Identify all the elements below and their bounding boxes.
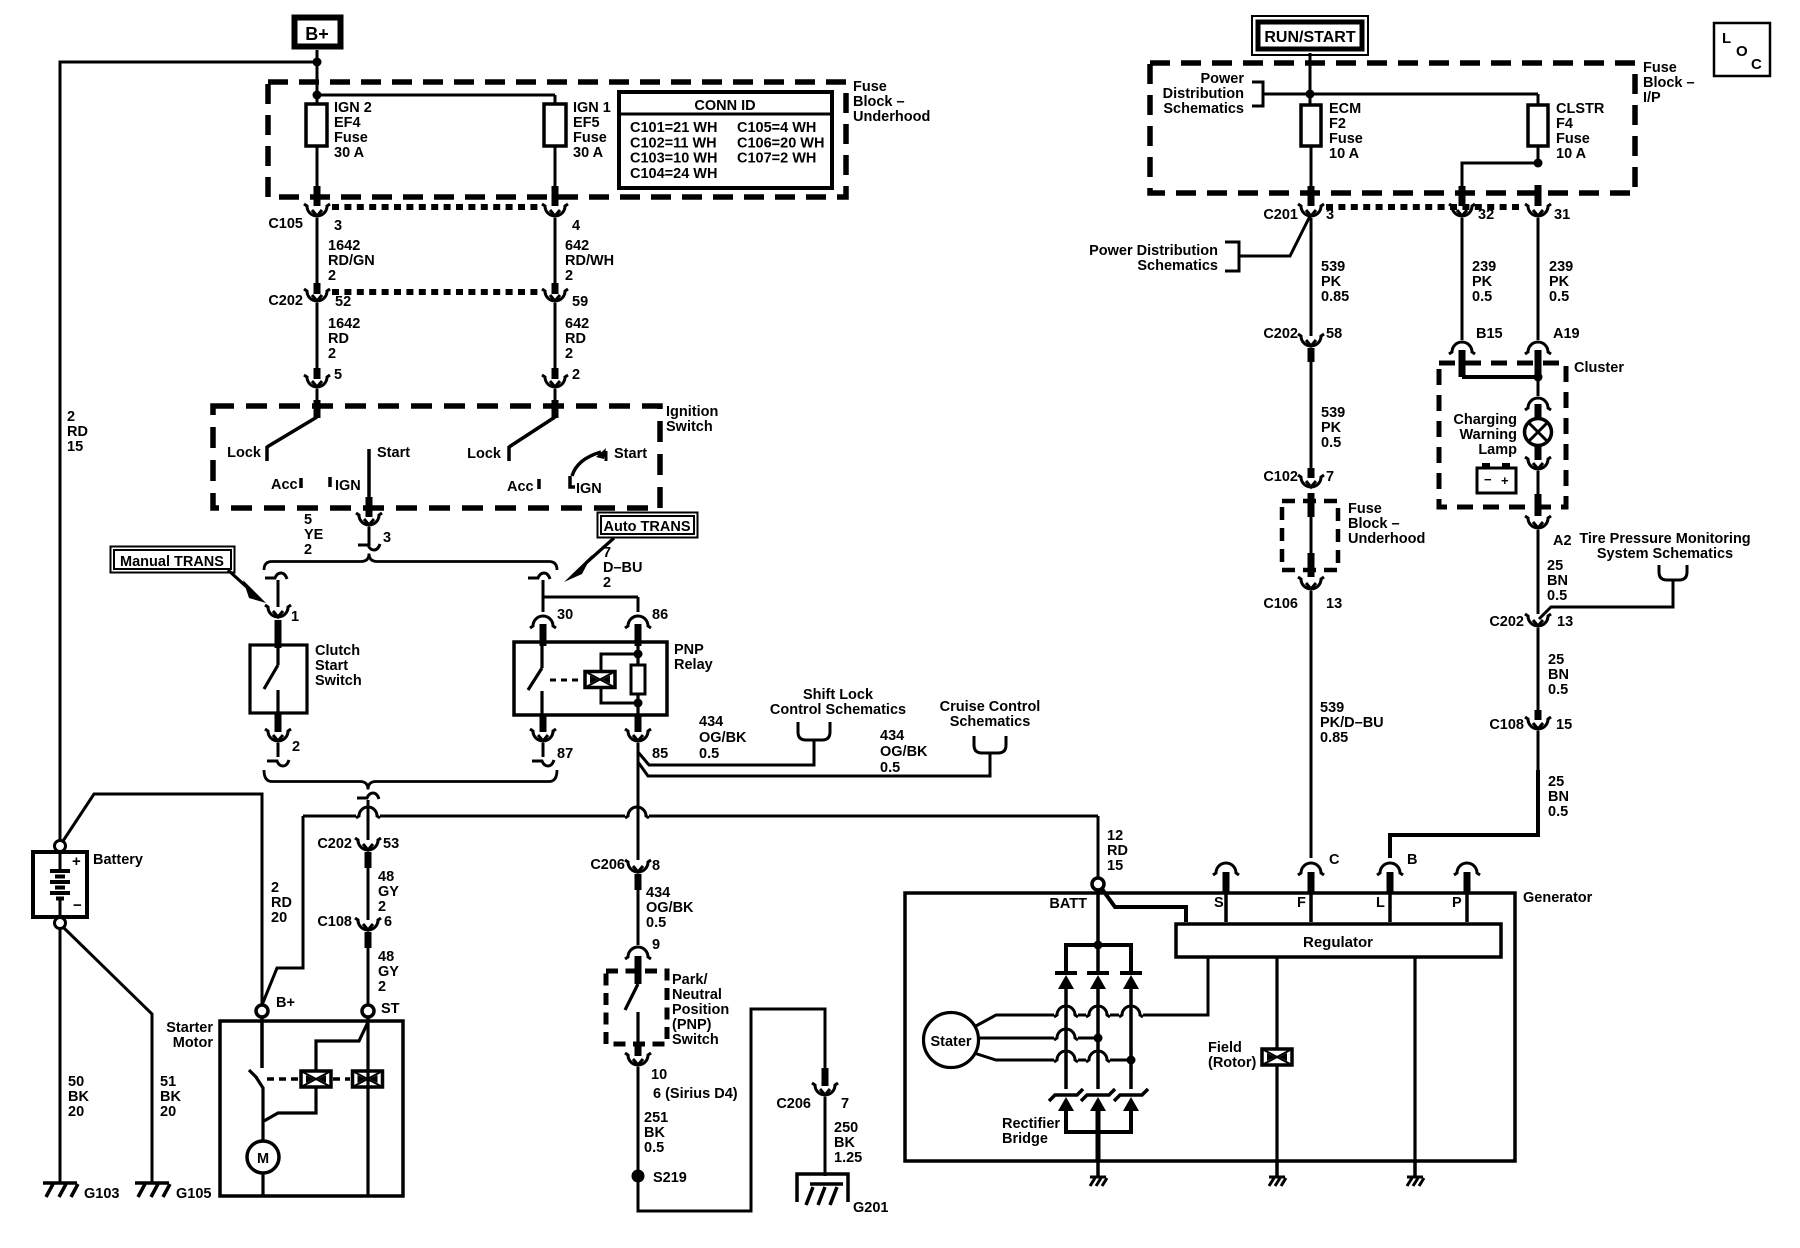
wire A2 to C202 13 (1538, 530, 1568, 614)
svg-text:RD: RD (67, 424, 88, 440)
wire lamp to A2 (1537, 471, 1540, 516)
clutch start switch (250, 620, 362, 713)
svg-text:Field: Field (1208, 1040, 1242, 1056)
label Cruise Control Schematics (940, 699, 1041, 730)
svg-text:30 A: 30 A (334, 145, 365, 161)
svg-text:D–BU: D–BU (603, 560, 642, 576)
wire 239 PK 0.5 pin 32 to B15 (1462, 218, 1496, 340)
svg-text:Block –: Block – (1348, 516, 1400, 532)
svg-text:2: 2 (304, 542, 312, 558)
svg-text:2: 2 (572, 367, 580, 383)
svg-text:EF4: EF4 (334, 115, 361, 131)
svg-text:Motor: Motor (173, 1035, 214, 1051)
connector C202 pin 13 (1489, 614, 1573, 630)
terminal ST starter (362, 1005, 374, 1017)
svg-text:C103=10 WH: C103=10 WH (630, 151, 717, 167)
wire 12 RD 15 bus to BATT (1098, 816, 1128, 877)
connector C108 pin 15 (1489, 710, 1572, 733)
svg-text:C104=24 WH: C104=24 WH (630, 166, 717, 182)
terminal F generator (1297, 852, 1340, 911)
svg-text:Cruise Control: Cruise Control (940, 699, 1041, 715)
svg-text:BN: BN (1548, 789, 1569, 805)
fuse block I/P dashed box (1150, 63, 1635, 193)
svg-text:Switch: Switch (315, 673, 362, 689)
svg-text:0.5: 0.5 (1549, 289, 1569, 305)
svg-text:RUN/START: RUN/START (1264, 29, 1355, 46)
svg-text:C102=11 WH: C102=11 WH (630, 135, 717, 151)
svg-text:BK: BK (160, 1089, 181, 1105)
svg-text:RD: RD (1107, 843, 1128, 859)
wire 434 OG/BK 0.5 to PNP switch (638, 874, 694, 945)
wire ECM fuse output (1310, 146, 1313, 206)
label Fuse Block I/P (1643, 60, 1695, 106)
svg-text:F2: F2 (1329, 116, 1346, 132)
svg-text:C108: C108 (317, 914, 352, 930)
svg-text:A19: A19 (1553, 326, 1580, 342)
wire B+ bus horizontal (303, 807, 1098, 818)
connector C202 pin 59 (542, 289, 588, 310)
svg-text:Acc: Acc (271, 477, 298, 493)
svg-text:539: 539 (1321, 405, 1345, 421)
ground regulator (1407, 1161, 1424, 1186)
svg-text:Power Distribution: Power Distribution (1089, 243, 1218, 259)
wire ST feed 48 GY 2 chain (367, 806, 370, 840)
svg-text:BN: BN (1548, 667, 1569, 683)
connector C108 pin 6 (317, 914, 392, 930)
svg-text:9: 9 (652, 937, 660, 953)
svg-text:+: + (72, 853, 81, 870)
label Charging Warning Lamp (1453, 412, 1517, 458)
svg-text:Neutral: Neutral (672, 987, 722, 1003)
wire brace to clutch terminal 1 (265, 573, 287, 607)
wire ST to windings (264, 1017, 368, 1121)
starter solenoid switch (249, 1017, 263, 1141)
field rotor winding (1262, 957, 1292, 1161)
svg-text:0.5: 0.5 (880, 760, 900, 776)
svg-text:C206: C206 (776, 1096, 811, 1112)
wire S219 to C206 pin 7 (638, 1009, 825, 1211)
connector A2 (1525, 516, 1572, 549)
svg-text:Schematics: Schematics (1163, 101, 1244, 117)
wire 50 BK 20 battery to G103 (60, 929, 89, 1183)
svg-text:6 (Sirius D4): 6 (Sirius D4) (653, 1086, 738, 1102)
wire to pin 32 (1462, 163, 1538, 206)
svg-text:G201: G201 (853, 1200, 888, 1216)
wire 5 YE 2 start output (304, 497, 369, 558)
wire 251 BK 0.5 (638, 1067, 738, 1172)
svg-text:Clutch: Clutch (315, 643, 360, 659)
fuse IGN2 EF4 30A (306, 100, 372, 161)
diode bottom center (1081, 1089, 1115, 1111)
svg-text:642: 642 (565, 316, 589, 332)
svg-text:5: 5 (334, 367, 342, 383)
svg-text:10: 10 (651, 1067, 667, 1083)
svg-text:Charging: Charging (1453, 412, 1517, 428)
ignition switch left pole (227, 400, 410, 502)
svg-text:12: 12 (1107, 828, 1123, 844)
label Shift Lock Control Schematics (770, 687, 906, 718)
svg-text:51: 51 (160, 1074, 176, 1090)
svg-text:Fuse: Fuse (1329, 131, 1363, 147)
label Ignition Switch (666, 404, 718, 435)
fuse IGN1 EF5 30A (544, 100, 611, 161)
svg-text:Power: Power (1200, 71, 1244, 87)
svg-text:B15: B15 (1476, 326, 1503, 342)
svg-text:0.5: 0.5 (644, 1140, 664, 1156)
svg-text:Lamp: Lamp (1478, 442, 1517, 458)
svg-text:ECM: ECM (1329, 101, 1361, 117)
wire 539 PK/D-BU 0.85 to generator F (1311, 591, 1384, 858)
svg-text:Start: Start (377, 445, 410, 461)
svg-text:PK: PK (1549, 274, 1570, 290)
label wire 7 D-BU 2 (603, 545, 642, 591)
svg-text:239: 239 (1472, 259, 1496, 275)
connector C106 pin 13 (1263, 577, 1342, 612)
svg-text:G105: G105 (176, 1186, 211, 1202)
wire 1642 RD/GN 2 (317, 218, 375, 294)
connector C201 pin 3 (1263, 204, 1334, 223)
connector terminal 86 (625, 607, 668, 628)
rectifier vertical center (1096, 945, 1100, 1089)
ground field (1269, 1161, 1286, 1186)
svg-text:EF5: EF5 (573, 115, 600, 131)
wire battery positive to starter B+ (63, 794, 262, 1005)
wire 48 GY 2 upper (368, 852, 399, 920)
starter motor box (166, 1020, 403, 1196)
svg-text:OG/BK: OG/BK (699, 730, 747, 746)
PNP relay coil loop and resistor (601, 645, 645, 715)
svg-text:BK: BK (834, 1135, 855, 1151)
svg-text:48: 48 (378, 949, 394, 965)
bracket Tire Pressure Monitoring (1539, 565, 1687, 619)
connector C105 pin 4 (542, 204, 580, 234)
svg-text:Starter: Starter (166, 1020, 213, 1036)
connector lamp top (1525, 398, 1551, 410)
svg-text:7: 7 (841, 1096, 849, 1112)
svg-text:Warning: Warning (1460, 427, 1517, 443)
svg-text:C105: C105 (268, 216, 303, 232)
label C202 (268, 293, 351, 310)
B+ power feed box (295, 18, 341, 47)
svg-text:C202: C202 (1263, 326, 1298, 342)
svg-text:25: 25 (1548, 652, 1564, 668)
svg-text:S: S (1214, 895, 1224, 911)
svg-text:C102: C102 (1263, 469, 1298, 485)
cluster dashed box (1439, 360, 1624, 507)
wire shift lock branch 434 OG/BK (638, 722, 830, 765)
svg-text:434: 434 (880, 728, 904, 744)
wire 642 RD/WH 2 (555, 218, 614, 294)
wire to fuse IGN1 (317, 95, 555, 105)
connector pin 3 in-line (356, 513, 391, 546)
connector terminal 2 (265, 713, 300, 755)
connector line C201 dotted (1326, 204, 1524, 210)
svg-text:CLSTR: CLSTR (1556, 101, 1605, 117)
PNP switch dashed box (606, 956, 729, 1048)
svg-text:L: L (1722, 30, 1731, 47)
fuse block underhood dashed box (268, 82, 846, 197)
wires terminals into regulator (1226, 892, 1467, 922)
svg-text:7: 7 (603, 545, 611, 561)
svg-text:C: C (1329, 852, 1340, 868)
wire 25 BN 0.5 to generator L (1390, 731, 1569, 858)
svg-text:6: 6 (384, 914, 392, 930)
PNP relay switch (528, 645, 542, 715)
svg-text:20: 20 (160, 1104, 176, 1120)
cluster battery icon (1477, 463, 1516, 493)
svg-text:C101=21 WH: C101=21 WH (630, 120, 717, 136)
arrow Auto TRANS (564, 538, 614, 582)
svg-text:Start: Start (315, 658, 348, 674)
connector C202 pin 58 (1263, 326, 1342, 346)
svg-text:Fuse: Fuse (1643, 60, 1677, 76)
diode top left (1055, 973, 1077, 989)
connector pin 10 (625, 1042, 667, 1083)
svg-text:59: 59 (572, 294, 588, 310)
connector pin 32 (1449, 204, 1494, 223)
svg-text:5: 5 (304, 512, 312, 528)
svg-text:O: O (1736, 43, 1748, 60)
svg-text:2: 2 (67, 409, 75, 425)
Manual TRANS box (111, 547, 235, 573)
svg-text:C202: C202 (268, 293, 303, 309)
diode top right (1120, 973, 1142, 989)
wire 239 PK 0.5 pin 31 to A19 (1538, 218, 1573, 340)
svg-text:IGN 2: IGN 2 (334, 100, 372, 116)
wire 642 RD 2 pin 2 (555, 303, 589, 383)
starter mechanical link dashed (267, 1077, 350, 1081)
svg-text:M: M (257, 1151, 269, 1167)
wire 25 BN 0.5 mid (1538, 628, 1569, 712)
diode top center (1087, 973, 1109, 989)
svg-text:F4: F4 (1556, 116, 1573, 132)
svg-text:10 A: 10 A (1329, 146, 1360, 162)
label Field Rotor (1208, 1040, 1256, 1071)
splice S219 (632, 1170, 687, 1187)
svg-text:0.5: 0.5 (1472, 289, 1492, 305)
wire B+ feed down from B+ box (316, 50, 319, 104)
connector pin 9 (625, 937, 660, 959)
svg-text:2: 2 (378, 979, 386, 995)
CONN ID table (619, 92, 832, 188)
svg-text:Regulator: Regulator (1303, 934, 1373, 951)
svg-text:Fuse: Fuse (1556, 131, 1590, 147)
connector C202 pin 52 (304, 289, 330, 301)
svg-text:0.5: 0.5 (646, 915, 666, 931)
wire to CLSTR fuse (1310, 94, 1538, 105)
svg-text:13: 13 (1326, 596, 1342, 612)
svg-text:2: 2 (565, 346, 573, 362)
connector C102 pin 7 (1263, 468, 1334, 487)
ground G201 (797, 1174, 888, 1216)
svg-text:C206: C206 (590, 857, 625, 873)
label wire 2 RD 15 (67, 409, 88, 455)
wire 51 BK 20 battery to G105 (64, 928, 181, 1183)
svg-text:Switch: Switch (672, 1032, 719, 1048)
label Fuse Block Underhood (853, 79, 930, 125)
junction CLSTR output (1534, 159, 1543, 168)
connector terminal 1 (265, 605, 299, 625)
svg-text:BK: BK (644, 1125, 665, 1141)
svg-text:Start: Start (614, 446, 647, 462)
svg-text:RD/GN: RD/GN (328, 253, 375, 269)
wire regulator L ground (1413, 957, 1416, 1161)
svg-text:F: F (1297, 895, 1306, 911)
terminal B+ starter (256, 995, 295, 1017)
svg-text:Generator: Generator (1523, 890, 1593, 906)
svg-text:Switch: Switch (666, 419, 713, 435)
wire 1642 RD 2 pin 5 (317, 303, 360, 383)
svg-text:2: 2 (292, 739, 300, 755)
wire ST through hold-in winding to case (366, 1017, 369, 1196)
wire cruise control branch 434 OG/BK (638, 736, 1006, 776)
svg-text:25: 25 (1547, 558, 1563, 574)
charging warning lamp (1525, 404, 1552, 460)
svg-text:System Schematics: System Schematics (1597, 546, 1733, 562)
label Tire Pressure Monitoring System Schematics (1579, 531, 1750, 562)
svg-text:C: C (1751, 56, 1762, 73)
bracket Power Distribution top (1252, 82, 1310, 106)
svg-text:239: 239 (1549, 259, 1573, 275)
svg-text:13: 13 (1557, 614, 1573, 630)
wire CLSTR fuse output (1537, 146, 1540, 163)
svg-text:OG/BK: OG/BK (646, 900, 694, 916)
fuse ECM F2 10A (1301, 101, 1363, 162)
wire 250 BK 1.25 to ground (825, 1097, 862, 1176)
svg-text:(PNP): (PNP) (672, 1017, 712, 1033)
svg-text:8: 8 (652, 858, 660, 874)
svg-text:32: 32 (1478, 207, 1494, 223)
svg-text:2: 2 (328, 346, 336, 362)
battery (33, 841, 143, 929)
wire 48 GY 2 lower (368, 932, 400, 1017)
wire brace to PNP relay 30/86 (528, 573, 638, 612)
svg-text:Relay: Relay (674, 657, 713, 673)
fuse CLSTR F4 10A (1528, 101, 1605, 162)
label wire 434 OG/BK 0.5 right (880, 728, 928, 776)
svg-text:15: 15 (1556, 717, 1572, 733)
svg-text:−: − (1484, 472, 1492, 487)
svg-text:Shift Lock: Shift Lock (803, 687, 874, 703)
connector C206 pin 7 (776, 1068, 849, 1112)
svg-text:251: 251 (644, 1110, 668, 1126)
stator phase 3 (974, 1051, 1136, 1065)
svg-text:20: 20 (271, 910, 287, 926)
connector C202 pin 53 (317, 836, 399, 852)
wire terminal 87 to brace (532, 743, 554, 766)
svg-text:Distribution: Distribution (1163, 86, 1244, 102)
wire fuse IGN1 output (554, 146, 557, 206)
connector A19 (1525, 326, 1580, 354)
svg-text:C202: C202 (1489, 614, 1524, 630)
label Power Distribution Schematics lower (1089, 243, 1218, 274)
svg-text:2: 2 (378, 899, 386, 915)
svg-text:Schematics: Schematics (1137, 258, 1218, 274)
svg-text:Cluster: Cluster (1574, 360, 1624, 376)
label wire 434 OG/BK 0.5 left (699, 714, 747, 762)
svg-text:RD: RD (565, 331, 586, 347)
svg-text:CONN ID: CONN ID (694, 98, 755, 114)
svg-text:0.5: 0.5 (1547, 588, 1567, 604)
brace start feed split (264, 554, 557, 571)
svg-text:1642: 1642 (328, 238, 360, 254)
svg-text:GY: GY (378, 964, 399, 980)
svg-text:Battery: Battery (93, 852, 143, 868)
connector B15 (1449, 326, 1503, 354)
svg-text:Ignition: Ignition (666, 404, 718, 420)
svg-text:85: 85 (652, 746, 668, 762)
svg-text:Tire Pressure Monitoring: Tire Pressure Monitoring (1579, 531, 1750, 547)
svg-text:PK: PK (1472, 274, 1493, 290)
svg-text:Block –: Block – (1643, 75, 1695, 91)
svg-text:31: 31 (1554, 207, 1570, 223)
connector line C105 dotted (332, 204, 542, 210)
svg-text:0.5: 0.5 (699, 746, 719, 762)
regulator box (1176, 924, 1501, 957)
svg-text:IGN: IGN (576, 481, 602, 497)
junction to IGN1 branch (313, 91, 322, 100)
svg-text:L: L (1376, 895, 1385, 911)
svg-text:0.5: 0.5 (1548, 682, 1568, 698)
svg-text:434: 434 (646, 885, 670, 901)
PNP relay coil (550, 672, 615, 688)
svg-text:Lock: Lock (467, 446, 502, 462)
svg-text:250: 250 (834, 1120, 858, 1136)
svg-text:C201: C201 (1263, 207, 1298, 223)
svg-text:Underhood: Underhood (853, 109, 930, 125)
svg-text:Block –: Block – (853, 94, 905, 110)
svg-text:Bridge: Bridge (1002, 1131, 1048, 1147)
svg-text:Control Schematics: Control Schematics (770, 702, 906, 718)
svg-text:0.5: 0.5 (1548, 804, 1568, 820)
wire 2 RD 20 bus to starter B+ (262, 816, 303, 1005)
svg-text:20: 20 (68, 1104, 84, 1120)
svg-text:53: 53 (383, 836, 399, 852)
connector ignition pin 2 (542, 375, 568, 407)
svg-text:Fuse: Fuse (853, 79, 887, 95)
junction RUN/START feed (1306, 90, 1315, 99)
svg-text:3: 3 (334, 218, 342, 234)
svg-text:C108: C108 (1489, 717, 1524, 733)
svg-text:539: 539 (1321, 259, 1345, 275)
wire left vertical 2 RD 15 to battery (59, 61, 62, 842)
svg-text:C105=4 WH: C105=4 WH (737, 120, 816, 136)
svg-text:Rectifier: Rectifier (1002, 1116, 1060, 1132)
starter pull-in winding (301, 1071, 331, 1087)
svg-text:7: 7 (1326, 469, 1334, 485)
wire fuse IGN2 output (316, 146, 319, 206)
svg-text:−: − (73, 897, 82, 914)
svg-text:Stater: Stater (930, 1034, 971, 1050)
svg-text:B+: B+ (276, 995, 295, 1011)
svg-text:642: 642 (565, 238, 589, 254)
svg-text:1642: 1642 (328, 316, 360, 332)
connector lamp bottom (1525, 457, 1551, 469)
svg-text:10 A: 10 A (1556, 146, 1587, 162)
svg-text:BATT: BATT (1049, 896, 1087, 912)
stator phase 2 (978, 1029, 1103, 1043)
generator box (905, 890, 1593, 1161)
svg-text:15: 15 (1107, 858, 1123, 874)
svg-text:1: 1 (291, 609, 299, 625)
svg-text:3: 3 (383, 530, 391, 546)
rectifier vertical left (1064, 989, 1068, 1089)
svg-text:Acc: Acc (507, 479, 534, 495)
svg-text:+: + (1501, 473, 1509, 488)
svg-text:Fuse: Fuse (573, 130, 607, 146)
svg-text:4: 4 (572, 218, 580, 234)
wire to brace (358, 527, 380, 550)
